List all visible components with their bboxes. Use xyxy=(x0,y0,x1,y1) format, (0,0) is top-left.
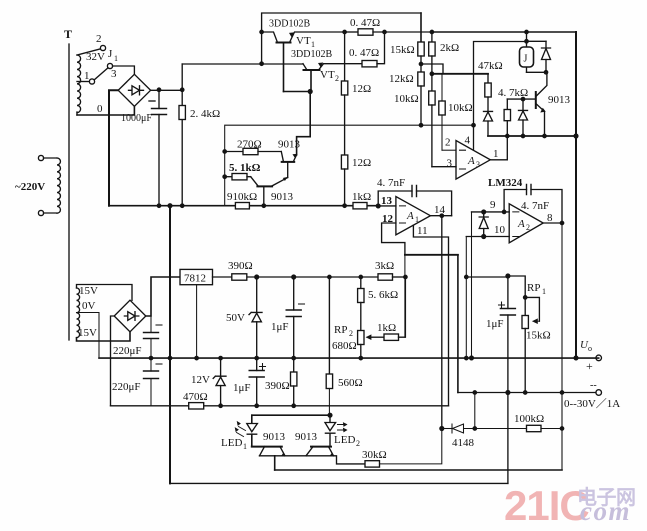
node relay bottom xyxy=(544,71,547,74)
svg-text:270Ω: 270Ω xyxy=(237,139,262,151)
svg-text:J: J xyxy=(524,54,528,65)
wire minus12 rail y405.8 xyxy=(111,405,449,407)
resistor 100k ohm xyxy=(475,413,562,432)
svg-text:7812: 7812 xyxy=(184,273,206,285)
node A2 out xyxy=(560,221,563,224)
svg-text:47kΩ: 47kΩ xyxy=(478,60,503,72)
wire A3 pin3 xyxy=(432,166,456,168)
wire pin12 to divider xyxy=(404,255,406,337)
resistor 1k ohm RP2 wiper xyxy=(372,277,405,340)
resistor 470 ohm xyxy=(183,391,208,409)
node VT base junction xyxy=(308,90,312,94)
node 30k top xyxy=(440,427,444,431)
node bridge1 plus at 1000uF xyxy=(157,88,160,91)
svg-text:1: 1 xyxy=(542,287,546,296)
node 560 top xyxy=(328,275,331,278)
svg-text:2: 2 xyxy=(349,329,353,338)
svg-text:2: 2 xyxy=(335,74,339,83)
svg-text:1kΩ: 1kΩ xyxy=(377,322,396,334)
regulator 7812 xyxy=(180,269,213,358)
svg-text:390Ω: 390Ω xyxy=(228,260,253,272)
resistor 0.47 ohm VT2 emitter xyxy=(349,32,385,67)
node pin4 tap xyxy=(472,124,475,127)
svg-text:1: 1 xyxy=(84,70,90,82)
LED2 xyxy=(325,415,360,448)
node 2k top on emitter rail xyxy=(430,30,433,33)
resistor 2.4k ohm xyxy=(179,64,220,206)
wire bridge1 plus right xyxy=(151,89,183,91)
node divider mid xyxy=(419,62,422,65)
node 270 left xyxy=(223,150,226,153)
svg-text:A: A xyxy=(517,218,525,230)
wire A2 pin9 xyxy=(472,211,510,213)
node LED2 top xyxy=(328,413,332,417)
capacitor 220uF second xyxy=(112,358,162,406)
svg-text:9013: 9013 xyxy=(548,94,571,106)
resistor 3k ohm on rail xyxy=(375,260,405,280)
node bus diode2 xyxy=(521,134,524,137)
wire divider mid to comparator bus xyxy=(421,64,443,74)
svg-text:1: 1 xyxy=(114,54,118,63)
wire 0V center tap xyxy=(77,313,100,359)
capacitor 4.7nF A1 feedback xyxy=(377,177,452,216)
svg-text:12kΩ: 12kΩ xyxy=(389,73,414,85)
resistor 12 ohm lower xyxy=(341,155,371,206)
diode D1 clamp xyxy=(484,97,493,136)
svg-text:10kΩ: 10kΩ xyxy=(448,102,473,114)
node out minus loop xyxy=(506,391,510,395)
svg-text:3: 3 xyxy=(476,160,480,169)
svg-text:220μF: 220μF xyxy=(113,345,142,357)
resistor 390 ohm vertical xyxy=(265,358,297,406)
node pin10 ref tap xyxy=(465,275,468,278)
svg-text:--: -- xyxy=(590,380,597,391)
wire A3 pin2 xyxy=(442,149,456,151)
svg-text:0. 47Ω: 0. 47Ω xyxy=(349,47,379,59)
wire Q7 to 30k xyxy=(334,456,366,464)
svg-text:30kΩ: 30kΩ xyxy=(362,449,387,461)
svg-text:3DD102B: 3DD102B xyxy=(291,49,332,60)
svg-text:0V: 0V xyxy=(82,300,96,312)
node diode3 bottom xyxy=(482,235,486,239)
resistor 390 ohm rail xyxy=(228,260,253,280)
node A1 out xyxy=(440,214,443,217)
wire right main vertical heavy xyxy=(575,32,577,358)
node Q4 emitter rail xyxy=(262,204,265,207)
node VT1 collector tap xyxy=(260,30,263,33)
wire unregulated feed y64 xyxy=(182,63,303,65)
wire bias vertical from divider rail xyxy=(225,125,421,206)
transformer T secondary winding 32V taps xyxy=(77,33,105,115)
diode D3 A2 input xyxy=(479,212,488,237)
svg-text:220μF: 220μF xyxy=(112,381,141,393)
wire comparator out bus y136 heavy xyxy=(488,135,576,137)
node 100k right xyxy=(560,427,563,430)
node relay feed on emitter rail xyxy=(525,30,528,33)
wire sense drop from out minus xyxy=(474,393,476,429)
comparator block top wire xyxy=(252,414,330,416)
svg-text:1kΩ: 1kΩ xyxy=(352,191,371,203)
svg-text:15kΩ: 15kΩ xyxy=(390,44,415,56)
zener diode 12V xyxy=(191,358,226,406)
svg-text:1: 1 xyxy=(415,215,419,224)
node sense drop top xyxy=(473,391,476,394)
wire rail y124 xyxy=(421,124,474,126)
svg-text:50V: 50V xyxy=(226,312,245,324)
svg-text:3kΩ: 3kΩ xyxy=(375,260,394,272)
resistor 1k ohm A1 input xyxy=(352,191,371,209)
svg-text:15kΩ: 15kΩ xyxy=(526,330,551,342)
resistor 910k ohm on rail xyxy=(227,191,257,209)
svg-text:J: J xyxy=(108,48,113,60)
svg-text:+: + xyxy=(586,359,593,373)
wire 0 tap to bridge bottom xyxy=(77,106,134,115)
svg-text:680Ω: 680Ω xyxy=(332,340,357,352)
svg-text:1000μF: 1000μF xyxy=(121,113,152,124)
node diode3 top xyxy=(482,210,486,214)
svg-text:5. 6kΩ: 5. 6kΩ xyxy=(368,289,398,301)
node RP1 bottom xyxy=(524,391,527,394)
terminal output minus xyxy=(590,380,602,395)
svg-text:.: . xyxy=(570,499,577,526)
svg-text:470Ω: 470Ω xyxy=(183,391,208,403)
transformer T primary winding ~220V xyxy=(15,155,60,215)
wire A2 pin10 xyxy=(466,236,509,238)
svg-text:15V: 15V xyxy=(78,327,97,339)
node 7812 gnd xyxy=(195,356,198,359)
wire plus12 rail xyxy=(213,276,379,278)
node zener12 bottom xyxy=(219,404,222,407)
svg-text:5. 1kΩ: 5. 1kΩ xyxy=(229,162,261,174)
svg-text:RP: RP xyxy=(334,324,347,336)
capacitor 1000uF xyxy=(121,90,167,206)
switch J1 xyxy=(89,45,118,84)
svg-text:910kΩ: 910kΩ xyxy=(227,191,257,203)
transistor Q3 9013 xyxy=(278,139,301,178)
node collector rail left xyxy=(260,62,263,65)
svg-text:4: 4 xyxy=(465,135,471,147)
node 1uF2 top xyxy=(255,356,258,359)
svg-text:2: 2 xyxy=(526,223,530,232)
wire A1 pin13 input xyxy=(378,205,396,207)
node 12ohm chain bottom xyxy=(343,204,346,207)
svg-text:2: 2 xyxy=(96,33,102,45)
wire bottom loop y483 xyxy=(170,482,508,484)
resistor 5.6k ohm xyxy=(358,277,399,331)
resistor 560 ohm xyxy=(326,277,362,415)
node bus right xyxy=(574,134,578,138)
node 12V zener top xyxy=(219,356,222,359)
wire A1 out to comparator xyxy=(441,216,443,429)
svg-text:3: 3 xyxy=(447,158,453,170)
svg-text:9013: 9013 xyxy=(278,139,301,151)
transistor Q5 9013 relay driver xyxy=(536,72,571,136)
node bus emitter xyxy=(543,134,546,137)
transformer T core xyxy=(64,27,72,340)
potentiometer RP1 xyxy=(522,282,551,393)
wire bridge2 plus up to 7812 xyxy=(146,277,180,316)
wire relay bottom to 9013 collector xyxy=(527,71,547,73)
svg-text:1μF: 1μF xyxy=(233,382,251,394)
wire A1 pin12 path xyxy=(382,223,405,255)
svg-text:0. 47Ω: 0. 47Ω xyxy=(350,17,380,29)
wire bridge2 minus left down xyxy=(111,316,115,406)
transistor Q6 9013 left xyxy=(252,431,286,456)
node 390v bottom xyxy=(292,404,295,407)
wire A2 output xyxy=(543,222,562,224)
transistor Q7 9013 right xyxy=(295,431,334,456)
svg-text:4. 7nF: 4. 7nF xyxy=(377,177,405,189)
svg-text:14: 14 xyxy=(434,204,446,216)
svg-text:4. 7nF: 4. 7nF xyxy=(521,200,549,212)
wire base drive from Q3 collector xyxy=(297,92,311,155)
diode D2 clamp xyxy=(519,99,528,136)
terminal output plus xyxy=(580,339,602,373)
svg-text:A: A xyxy=(467,155,475,167)
svg-text:1: 1 xyxy=(311,40,315,49)
svg-text:8: 8 xyxy=(547,212,553,224)
svg-text:3DD102B: 3DD102B xyxy=(269,19,310,30)
svg-text:9013: 9013 xyxy=(271,191,294,203)
wire A1 output down xyxy=(430,215,451,217)
node RP2 top xyxy=(359,275,362,278)
wire loop up to out-minus xyxy=(507,393,509,484)
svg-text:560Ω: 560Ω xyxy=(338,377,363,389)
transistor Q4 9013 xyxy=(251,177,294,206)
node 2k bottom xyxy=(430,72,433,75)
SECTION:WATERMARK xyxy=(504,482,636,529)
potentiometer RP2 680 xyxy=(332,324,372,358)
svg-text:10: 10 xyxy=(494,224,506,236)
node base diode tap xyxy=(521,97,524,100)
op-amp A2 xyxy=(490,199,553,243)
svg-text:4148: 4148 xyxy=(452,437,475,449)
svg-text:1μF: 1μF xyxy=(486,318,504,330)
capacitor 1uF third xyxy=(486,276,515,393)
node RP2 bottom xyxy=(359,356,362,359)
wire emitter rail to right heavy xyxy=(432,31,576,33)
svg-text:12Ω: 12Ω xyxy=(352,83,371,95)
node A1 pin13 xyxy=(376,204,380,208)
wire minus rail y205.7 xyxy=(109,205,378,207)
svg-text:LM324: LM324 xyxy=(488,177,523,189)
node emitter rail 12ohm tap xyxy=(343,30,346,33)
transistor VT2 3DD102B xyxy=(303,63,362,92)
node A2out cross xyxy=(560,391,563,394)
node 3k right junction xyxy=(404,275,407,278)
wire out minus rail xyxy=(458,392,596,394)
node big loop drop xyxy=(168,204,172,208)
wire switch pole to bridge top xyxy=(113,66,135,74)
wire A1 pin11 path xyxy=(413,225,448,406)
capacitor 220uF first xyxy=(113,316,162,358)
wire A2 pin10 down xyxy=(465,237,467,359)
resistor 4.7k ohm relay base xyxy=(498,87,528,136)
svg-text:12Ω: 12Ω xyxy=(352,157,371,169)
svg-text:VT: VT xyxy=(320,69,335,81)
node pin10 gnd xyxy=(465,356,468,359)
node loop on gnd xyxy=(168,356,171,359)
svg-text:o: o xyxy=(588,344,592,353)
resistor 2k ohm xyxy=(429,32,459,74)
svg-text:11: 11 xyxy=(417,225,428,237)
wire A2 pin9 sense down xyxy=(471,212,473,358)
svg-text:32V: 32V xyxy=(86,51,105,63)
svg-text:15V: 15V xyxy=(79,285,98,297)
node bus A3out xyxy=(506,134,509,137)
LED1 xyxy=(221,415,257,451)
svg-text:2: 2 xyxy=(445,137,451,149)
wire VT bases link xyxy=(284,91,311,93)
svg-text:A: A xyxy=(406,210,414,222)
capacitor 1uF first xyxy=(271,277,305,358)
svg-text:10kΩ: 10kΩ xyxy=(394,93,419,105)
svg-text:LED: LED xyxy=(334,434,355,446)
bridge rectifier 2 xyxy=(114,300,146,332)
resistor 5.1k ohm xyxy=(225,162,261,180)
node 1uF1 top xyxy=(292,275,296,279)
node 1uF3 top xyxy=(506,274,510,278)
wire rail to RP1 xyxy=(466,276,525,297)
transformer T secondary 15-0-15 winding xyxy=(77,285,99,339)
wire emitters bottom xyxy=(260,455,334,457)
node cap1 bottom on gnd rail xyxy=(149,356,152,359)
resistor 30k ohm xyxy=(362,429,442,468)
wire A3 pin4 power feed xyxy=(474,42,527,151)
node 1000uF bottom xyxy=(157,204,160,207)
svg-text:9013: 9013 xyxy=(263,431,286,443)
node emitter rail 0.47-2 tap xyxy=(383,30,386,33)
svg-text:2: 2 xyxy=(356,439,360,448)
node 5.1k left xyxy=(223,175,226,178)
node 2.4k top xyxy=(181,88,184,91)
wire A3 output xyxy=(490,136,507,160)
node out plus main vertical xyxy=(574,356,578,360)
wire 15V top tap xyxy=(77,285,133,301)
wire relay feed xyxy=(527,32,547,41)
bridge rectifier 1 xyxy=(118,74,150,106)
transistor VT1 3DD102B xyxy=(262,32,345,92)
svg-text:9013: 9013 xyxy=(295,431,318,443)
diode 4148 xyxy=(452,424,475,449)
svg-text:2. 4kΩ: 2. 4kΩ xyxy=(190,108,220,120)
wire top rail collector xyxy=(262,13,421,64)
svg-text:VT: VT xyxy=(296,35,311,47)
node 12k bottom xyxy=(419,124,422,127)
wire 15V bottom tap xyxy=(77,332,131,341)
node 390v top xyxy=(292,356,295,359)
wire sense line down xyxy=(457,255,459,393)
svg-text:0--30V／1A: 0--30V／1A xyxy=(564,397,620,410)
svg-text:~220V: ~220V xyxy=(15,181,45,193)
wire bridge1 minus down-left heavy xyxy=(109,90,118,205)
capacitor 4.7nF A2 feedback xyxy=(504,185,562,224)
svg-text:0: 0 xyxy=(97,103,103,115)
svg-text:T: T xyxy=(64,27,72,41)
svg-text:1: 1 xyxy=(493,148,499,160)
svg-text:1μF: 1μF xyxy=(271,321,289,333)
svg-text:3: 3 xyxy=(111,68,117,80)
svg-text:RP: RP xyxy=(527,282,540,294)
svg-text:9: 9 xyxy=(490,199,496,211)
wire gnd rail y358 xyxy=(99,357,599,359)
svg-text:13: 13 xyxy=(381,195,393,207)
resistor 12 ohm upper xyxy=(341,32,371,155)
node pin9 sense gnd xyxy=(470,356,474,360)
node relay top xyxy=(525,40,528,43)
svg-text:1: 1 xyxy=(243,442,247,451)
diode relay flyback xyxy=(542,41,551,72)
svg-text:LED: LED xyxy=(221,437,242,449)
svg-text:2kΩ: 2kΩ xyxy=(440,42,459,54)
wire emitters drop xyxy=(274,456,276,470)
wire sense 100k line xyxy=(442,428,452,430)
wire 9013 base xyxy=(507,98,536,100)
node A2 pin9 feedback tap xyxy=(502,210,505,213)
resistor 10k ohm second xyxy=(439,74,473,150)
capacitor 1uF second xyxy=(233,358,266,406)
relay coil J xyxy=(520,41,534,72)
node sense drop xyxy=(473,427,476,430)
resistor 47k ohm xyxy=(478,60,503,97)
wire bottom heavy y470 xyxy=(275,469,562,471)
svg-text:com: com xyxy=(580,496,631,526)
resistor 270 ohm xyxy=(225,139,282,155)
wire A2 out down xyxy=(561,223,563,470)
resistor 10k ohm first xyxy=(394,74,435,167)
svg-text:12V: 12V xyxy=(191,374,210,386)
svg-text:100kΩ: 100kΩ xyxy=(514,413,544,425)
zener diode 50V xyxy=(226,277,262,358)
svg-text:390Ω: 390Ω xyxy=(265,380,290,392)
op-amp A3 xyxy=(445,135,499,180)
resistor 15k ohm xyxy=(390,13,424,72)
resistor 12k ohm xyxy=(389,72,424,125)
resistor 0.47 ohm VT1 emitter xyxy=(345,17,432,35)
wire left loop vertical heavy xyxy=(169,206,171,484)
node zener50 top xyxy=(255,275,259,279)
op-amp A1 xyxy=(381,195,446,237)
node 1uF2 bottom xyxy=(255,404,258,407)
wire bus y73.8 heavy xyxy=(432,73,488,75)
wire pin12 bus heavy xyxy=(405,254,458,256)
node 2.4k bottom xyxy=(181,204,184,207)
